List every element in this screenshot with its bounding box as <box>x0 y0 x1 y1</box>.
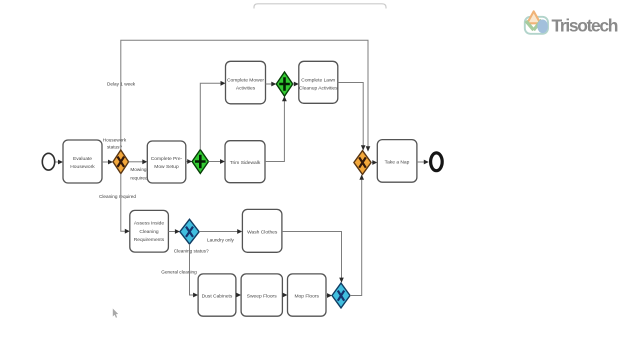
wire parallel gateway up to Complete Mower Activities <box>200 81 225 150</box>
label Laundry only <box>207 237 234 242</box>
task Assess Inside Cleaning Requirements <box>130 210 169 252</box>
wire gateway to Complete Pre-Mow Setup <box>129 159 148 164</box>
wire join parallel gateway to Complete Lawn Cleanup Activities <box>293 82 299 87</box>
wire Wash Clothes right and down to blue join gateway <box>282 232 344 283</box>
svg-text:status?: status? <box>107 145 123 150</box>
wire Trim Sidewalk right and up to join parallel gateway <box>265 96 287 161</box>
task Evaluate Housework <box>63 140 102 183</box>
svg-text:Delay 1 week: Delay 1 week <box>107 82 136 87</box>
wire start to Evaluate Housework <box>55 160 63 165</box>
task Take a Nap <box>377 140 417 183</box>
gateway X blue (Cleaning status) <box>180 219 199 244</box>
svg-text:Activities: Activities <box>236 85 256 91</box>
label Mowing required <box>130 167 148 180</box>
wire Complete Mower Activities to join parallel gateway <box>266 82 277 87</box>
svg-text:Complete Mower: Complete Mower <box>227 77 264 83</box>
label Cleaning status? <box>174 249 209 254</box>
task Complete Pre-Mow Setup <box>147 141 186 183</box>
gateway parallel green (split) <box>192 150 208 174</box>
svg-text:Take a Nap: Take a Nap <box>385 160 410 166</box>
svg-text:Trisotech: Trisotech <box>552 16 618 36</box>
svg-text:Mow Setup: Mow Setup <box>154 164 179 170</box>
svg-text:Wash Clothes: Wash Clothes <box>247 229 278 235</box>
wire Complete Lawn Cleanup Activities right and down to join gateway <box>338 83 366 151</box>
tooltip top edge <box>254 4 386 9</box>
wire blue join gateway right and up to orange join gateway <box>350 174 364 295</box>
svg-text:Laundry only: Laundry only <box>207 237 234 242</box>
wire Evaluate Housework to gateway <box>102 160 113 165</box>
Trisotech wordmark <box>552 16 618 36</box>
svg-text:Cleaning status?: Cleaning status? <box>174 249 209 254</box>
svg-text:Complete Lawn: Complete Lawn <box>301 77 335 83</box>
wire blue gateway down to Dust Cabinets <box>190 244 199 297</box>
end event <box>431 153 443 171</box>
label Delay 1 week <box>107 82 136 87</box>
svg-text:Requirements: Requirements <box>134 237 165 243</box>
wire Delay 1 week: gateway top up, across, down to join gateway <box>121 40 370 151</box>
task Mop Floors <box>288 274 327 316</box>
svg-text:Housework: Housework <box>70 164 95 170</box>
svg-text:Complete Pre-: Complete Pre- <box>151 156 183 162</box>
svg-text:Mowing: Mowing <box>130 167 147 172</box>
start event <box>42 153 54 170</box>
svg-text:Mop Floors: Mop Floors <box>294 293 319 299</box>
svg-text:Housework: Housework <box>103 138 127 143</box>
label General cleaning <box>161 269 197 274</box>
svg-text:required: required <box>130 175 148 180</box>
task Complete Mower Activities <box>226 61 266 104</box>
task Dust Cabinets <box>198 274 236 316</box>
wire Dust Cabinets to Sweep Floors <box>236 293 241 298</box>
gateway X orange (join before nap) <box>354 151 371 175</box>
wire Assess to exclusive blue gateway <box>168 229 180 234</box>
wire gateway down to Assess Inside Cleaning Requirements <box>121 174 130 234</box>
svg-text:Cleanup Activities: Cleanup Activities <box>299 85 338 91</box>
svg-text:Cleaning: Cleaning <box>139 229 159 235</box>
wire blue gateway to Wash Clothes <box>199 229 242 234</box>
svg-text:Assess Inside: Assess Inside <box>134 221 164 227</box>
wire Mop Floors to blue join gateway <box>326 293 332 298</box>
gateway parallel green (join) <box>276 72 292 96</box>
gateway X orange (Housework status) <box>113 150 129 174</box>
wire Take a Nap to end event <box>417 160 429 165</box>
task Sweep Floors <box>241 274 282 316</box>
label Cleaning required <box>99 194 136 199</box>
svg-text:Trim Sidewalk: Trim Sidewalk <box>230 160 261 166</box>
svg-text:Evaluate: Evaluate <box>73 156 92 162</box>
task Trim Sidewalk <box>225 141 265 183</box>
label Housework status? <box>103 138 127 150</box>
wire join orange gateway to Take a Nap <box>371 160 377 165</box>
wire Sweep Floors to Mop Floors <box>282 293 287 298</box>
wire Complete Pre-Mow Setup to parallel gateway <box>186 159 192 164</box>
mouse cursor <box>113 309 118 318</box>
svg-text:Cleaning required: Cleaning required <box>99 194 136 199</box>
svg-text:Sweep Floors: Sweep Floors <box>247 293 277 299</box>
svg-text:Dust Cabinets: Dust Cabinets <box>202 293 233 299</box>
wire parallel gateway to Trim Sidewalk <box>209 159 226 164</box>
task Complete Lawn Cleanup Activities <box>299 61 338 103</box>
task Wash Clothes <box>242 209 282 252</box>
svg-text:General cleaning: General cleaning <box>161 269 197 274</box>
Trisotech logo icon <box>525 11 548 33</box>
gateway X blue (join) <box>332 283 350 308</box>
